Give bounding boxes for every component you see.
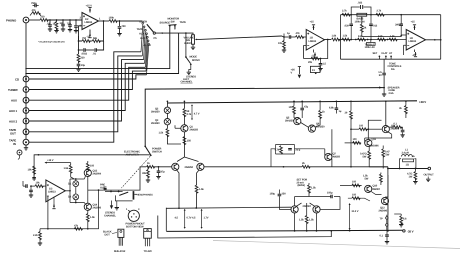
svg-text:AUX 1: AUX 1 (139, 33, 147, 36)
transistor Q6 diff pair right (185, 163, 204, 170)
node supply corner (38, 154, 40, 156)
input resistor R42 (35, 181, 46, 187)
node bias fb (350, 166, 352, 168)
scan artifact line (213, 241, 460, 249)
inductor L1 with damping resistor (400, 149, 416, 169)
node fb pwr (283, 166, 285, 168)
transistor Q5 diff pair left (172, 163, 179, 170)
svg-text:.01: .01 (93, 53, 97, 56)
node mid1 (355, 39, 357, 41)
capacitor C2 to ground (60, 20, 66, 31)
svg-text:2N4250: 2N4250 (185, 166, 194, 169)
svg-text:0.1: 0.1 (380, 235, 384, 238)
resistor R3 to ground (54, 20, 58, 33)
svg-text:100: 100 (359, 125, 364, 128)
svg-text:5W: 5W (386, 154, 390, 157)
resistor R24 VAS load (183, 137, 191, 145)
svg-text:100: 100 (90, 165, 95, 168)
svg-text:LM833: LM833 (85, 21, 93, 24)
resistor R14 2.7k top (342, 10, 350, 17)
svg-text:47k: 47k (296, 32, 301, 35)
svg-text:4.7 V: 4.7 V (194, 113, 200, 116)
capacitor C1 to ground (47, 20, 53, 31)
svg-text:3k: 3k (399, 107, 402, 110)
bias voltage arrow 31.2V (349, 203, 359, 232)
label to pwr amp (100, 184, 106, 190)
capacitor C5 to ground after R4 (117, 21, 126, 36)
svg-text:(BIAS): (BIAS) (298, 184, 306, 187)
selector contact 7 (148, 44, 150, 46)
selector contact 3 (145, 29, 147, 31)
base Q11 wire (320, 197, 340, 210)
mid row wire (341, 39, 407, 41)
tape monitor return wire 2 (25, 26, 178, 73)
supply feed wire upper (145, 88, 384, 146)
svg-text:1: 1 (126, 208, 128, 211)
svg-text:6.8k: 6.8k (329, 107, 334, 110)
Q4 emitter down to diff pair (177, 132, 199, 162)
set flat contacts (373, 52, 393, 59)
speaker fuse arrow node (379, 86, 400, 95)
jack J5 AUX 1 (9, 108, 29, 114)
output arrow marker (434, 39, 436, 41)
terminal -38V (403, 229, 414, 233)
node loop right (440, 39, 442, 41)
svg-text:CD: CD (15, 77, 19, 81)
wire R28 down to bias (350, 129, 352, 167)
tone loop left vertical (340, 15, 342, 60)
label TO-39 (126, 223, 146, 229)
svg-text:5%: 5% (391, 68, 395, 71)
svg-text:31.2 V: 31.2 V (352, 210, 359, 213)
svg-text:SWITCH: SWITCH (152, 151, 162, 154)
node n6 (119, 20, 121, 22)
svg-text:Q11: Q11 (372, 138, 377, 141)
node loop diff right (195, 207, 197, 209)
svg-text:100p: 100p (327, 192, 333, 195)
svg-text:5W: 5W (365, 178, 369, 181)
label LEFT CHANNEL (181, 78, 193, 84)
pin stub label (283, 34, 285, 38)
svg-text:2N4250: 2N4250 (190, 129, 199, 132)
svg-text:HEADPHONES: HEADPHONES (137, 194, 153, 197)
resistor R10 to ground below (278, 37, 286, 52)
coupling cap at left (104, 187, 107, 190)
svg-text:750: 750 (67, 23, 72, 26)
lower driver Q14 (365, 185, 381, 193)
transistor Q10 diff2 left (291, 206, 298, 213)
potentiometer VOLUME 50k (184, 35, 200, 45)
svg-text:1k: 1k (147, 162, 150, 165)
svg-text:* VALUES IN µF UNLESS OTD: * VALUES IN µF UNLESS OTD (38, 41, 65, 44)
svg-text:2k: 2k (364, 27, 367, 30)
node U2 out (327, 39, 329, 41)
preamp supply wire from power switch (34, 155, 150, 181)
output line buffer (88, 189, 104, 191)
op-amp U3 1/2 LM833 (406, 30, 425, 51)
headphone jack tip wire (134, 193, 137, 195)
resistor R12 feedback 20k (308, 57, 319, 64)
+15V supply arrow U3 (411, 21, 417, 31)
U3 inverting stub (404, 45, 407, 55)
resistor R4 100k series (109, 17, 120, 23)
svg-text:1k: 1k (322, 111, 325, 114)
diff feedback wire right (204, 166, 302, 168)
svg-text:10k: 10k (278, 42, 283, 45)
diff2 collectors to rail (295, 197, 317, 231)
headphone jack sleeve bar (133, 191, 135, 200)
current source column wire (166, 101, 168, 128)
Q17 lower resistor R43 (86, 210, 95, 229)
capacitor C6 parallel fb (79, 48, 90, 55)
svg-text:+15 V: +15 V (86, 5, 93, 8)
svg-text:2N4250: 2N4250 (151, 111, 160, 114)
Q12 emitter network resistor R32 (388, 123, 402, 135)
node mid3 (387, 39, 389, 41)
driver transistor Q12 (382, 125, 399, 133)
small arrow on source wire (161, 32, 163, 34)
Q9 collector/emitter column (331, 129, 333, 167)
transistor Q11 diff2 right (303, 205, 321, 213)
svg-text:330: 330 (60, 22, 65, 25)
buffer mesh wires (70, 179, 84, 203)
svg-text:0.7V: 0.7V (187, 217, 192, 220)
capacitor C8 electrolytic to ground (76, 61, 85, 71)
mode switch lower stub (187, 64, 191, 74)
tone loop right vertical (440, 15, 442, 60)
wire TAPE IN to selector (29, 52, 141, 142)
base feed resistor R33 (345, 138, 362, 144)
capacitor C22 (329, 101, 342, 113)
top rail wire (341, 14, 441, 16)
wire CD to selector (29, 75, 147, 79)
main output column (387, 167, 389, 231)
wire bias to Q10 (271, 149, 325, 167)
input series from left (23, 181, 27, 188)
svg-text:2.5A: 2.5A (389, 92, 394, 95)
svg-text:OUTPUT: OUTPUT (424, 174, 435, 177)
node tone left (340, 39, 342, 41)
capacitor C21 (300, 101, 308, 114)
svg-text:BOTTOM VIEW: BOTTOM VIEW (126, 225, 144, 228)
Q13 collector wire (368, 120, 381, 139)
svg-text:150: 150 (187, 140, 192, 143)
svg-text:10k: 10k (36, 181, 41, 184)
svg-text:AUX: AUX (11, 99, 17, 103)
+38V rail (167, 101, 417, 103)
input node (30, 185, 32, 187)
node out (387, 168, 389, 170)
node mid2 (367, 39, 369, 41)
power ground arrow (110, 201, 119, 210)
node bass left (350, 14, 352, 16)
feedback left wire (79, 36, 83, 50)
output transistor Q13 (365, 138, 379, 147)
svg-text:FLAT: FLAT (382, 52, 389, 55)
svg-text:LM833: LM833 (48, 191, 56, 194)
svg-text:750: 750 (82, 37, 87, 40)
svg-text:10µ: 10µ (81, 64, 86, 67)
-V arrow U4 (52, 197, 55, 209)
feedback resistor R44 47k (74, 224, 83, 230)
resistor R26 VAS top (289, 101, 297, 119)
node line in (283, 36, 285, 38)
measure arrow 2 (192, 209, 209, 229)
svg-text:2N4250: 2N4250 (285, 120, 294, 123)
wire R2 to op-amp (47, 19, 82, 21)
-15V supply arrow U2 (312, 50, 317, 58)
selector contact fan wires (141, 25, 149, 75)
node out1 (103, 20, 105, 22)
jack J3 TUNER (8, 87, 29, 93)
jack J6 AUX 2 (9, 118, 29, 124)
svg-text:100k LIN: 100k LIN (365, 46, 375, 49)
node fb2 (78, 49, 80, 51)
wire TUNER to selector (29, 71, 146, 89)
resistor R30 (308, 183, 317, 197)
package TO-126 (114, 229, 126, 253)
svg-text:TP: TP (380, 218, 383, 221)
loop top wire (166, 207, 291, 208)
selector contact 5 (147, 36, 149, 38)
selector wiper SW1 (147, 24, 157, 40)
svg-text:2.7k: 2.7k (342, 10, 347, 13)
svg-text:PHONO: PHONO (6, 19, 17, 23)
jack J1 phono input (23, 17, 29, 23)
wire Q12 emitter to Q13 base (365, 134, 392, 143)
svg-text:47k: 47k (74, 224, 79, 227)
svg-text:MONO: MONO (192, 59, 200, 62)
label MONITOR SW (168, 18, 180, 24)
svg-text:1.5k: 1.5k (309, 219, 314, 222)
resistor R45 to ground (33, 229, 48, 246)
wire TAPE OUT to selector (29, 56, 142, 132)
+15V supply arrow U2 (310, 21, 316, 31)
emitter resistor R35 0.47 (382, 146, 391, 169)
U2 inverting input wire (304, 46, 307, 59)
svg-text:3: 3 (138, 208, 140, 211)
capacitor C12 bass left leg (344, 15, 353, 41)
resistor R40 (64, 163, 75, 179)
power switch S4 (144, 145, 151, 156)
resistor R20 input 1k (147, 162, 172, 168)
capacitor C26 bottom (380, 231, 390, 244)
node diff2 (294, 230, 296, 232)
resistor R27 (316, 101, 326, 127)
svg-text:F1: F1 (312, 69, 315, 72)
svg-text:1.5k: 1.5k (343, 35, 348, 38)
svg-text:100: 100 (289, 106, 294, 109)
svg-text:MJE-2012: MJE-2012 (114, 250, 126, 253)
headphone mute switch blade (119, 192, 128, 195)
svg-text:1.5k: 1.5k (311, 187, 316, 190)
resistor R25 feedback 2k (302, 162, 388, 168)
node bass right (370, 14, 372, 16)
capacitor C17 tone ground (378, 59, 386, 94)
svg-text:TAPE: TAPE (180, 21, 187, 24)
bias network RC parallel (275, 145, 301, 155)
capacitor C11 bass bypass (351, 2, 371, 15)
svg-text:2N5496: 2N5496 (379, 210, 388, 213)
feedback vertical wire (99, 21, 104, 41)
diode column wires (75, 179, 77, 203)
resistor R21 to ground (142, 166, 150, 182)
svg-text:TUNER: TUNER (139, 21, 148, 24)
svg-text:-38 V: -38 V (407, 229, 414, 233)
resistor R5 feedback (82, 37, 90, 43)
output line (388, 168, 428, 170)
label TONE CONTROLS (388, 62, 402, 71)
svg-text:TO-220: TO-220 (144, 250, 153, 253)
svg-text:10k: 10k (28, 169, 33, 172)
input coupling from preamp (104, 167, 147, 190)
svg-text:AUDIO: AUDIO (184, 42, 192, 45)
resistor R18 mid (378, 35, 386, 41)
node n3 (62, 19, 64, 21)
resistor R7 220 to ground (77, 50, 85, 62)
feed arrow wire (44, 159, 70, 164)
svg-text:100k: 100k (109, 17, 115, 20)
feedback wire U2 (304, 40, 328, 59)
Q15 collector column (385, 175, 388, 215)
output wire U2 (325, 39, 332, 41)
node C14 top (400, 14, 402, 16)
svg-text:AUX 3: AUX 3 (144, 44, 152, 47)
capacitor C18 feedback ground (318, 58, 326, 71)
op-amp inverting input wire (79, 26, 83, 41)
svg-text:8.2k: 8.2k (378, 35, 383, 38)
svg-text:39: 39 (345, 112, 348, 115)
svg-text:100µ: 100µ (270, 193, 276, 196)
node n2 (56, 19, 58, 21)
resistor R41 Q collector (86, 161, 94, 171)
svg-text:1W: 1W (409, 176, 413, 179)
input capacitor C27 (29, 186, 35, 197)
node n5 at op-amp input (75, 19, 77, 21)
svg-text:2N3904: 2N3904 (93, 173, 102, 176)
-15V supply arrow U3 (412, 50, 417, 58)
tape monitor return wire 1 (25, 26, 169, 68)
capacitor C4 to ground (74, 20, 78, 33)
svg-text:+15 V: +15 V (47, 159, 54, 162)
resistor R17 mid (358, 35, 366, 41)
headphone jack feed wire (105, 191, 123, 193)
op-amp U2 1/2 LM833 (306, 30, 324, 51)
capacitor C23 100u (270, 190, 291, 210)
wire AUX to selector (29, 67, 145, 100)
ground tone (382, 94, 386, 96)
svg-text:47k: 47k (32, 9, 37, 12)
U3 output wire to loop (426, 39, 441, 41)
emitter resistor R34 0.47 (360, 147, 371, 167)
svg-text:1.7V: 1.7V (204, 217, 209, 220)
Q14 emitter to Q15 base (348, 192, 382, 202)
svg-text:1.5: 1.5 (323, 63, 327, 66)
node q9 base feed (350, 128, 352, 130)
wire input to R2 (29, 19, 40, 21)
TO-39 package bottom view (126, 208, 140, 221)
wire to selector contact (120, 20, 143, 22)
resistor R2 220 (40, 16, 48, 22)
package TO-220 (144, 229, 153, 253)
Q14 base resistor R37 (340, 181, 362, 187)
rail junction dots (184, 100, 186, 102)
svg-text:100: 100 (352, 194, 357, 197)
measure arrow 4.7V (191, 104, 200, 120)
Q12 collector to rail (385, 101, 387, 125)
output wire U4 (65, 190, 70, 192)
wire Q7 to Q8 (301, 114, 309, 127)
label black dot (103, 231, 117, 237)
label POWER SWITCH (152, 148, 162, 154)
svg-text:IN: IN (13, 142, 16, 146)
measure arrow 1 (175, 209, 192, 229)
output ground symbol (426, 177, 430, 182)
svg-text:6.8: 6.8 (403, 218, 407, 221)
svg-text:47p: 47p (161, 171, 166, 174)
svg-text:1.5k: 1.5k (159, 132, 164, 135)
rail dots bottom (330, 230, 332, 232)
svg-text:1µ: 1µ (287, 32, 290, 35)
svg-text:100k LIN: 100k LIN (355, 20, 365, 23)
node loop diff left (178, 207, 180, 209)
svg-text:1.5k: 1.5k (390, 35, 395, 38)
resistor R6 feedback (89, 37, 101, 43)
fuse F1 box (310, 66, 320, 74)
feedback wire buffer (48, 190, 99, 229)
potentiometer TREBLE 100k (365, 40, 376, 50)
diff collectors down (177, 170, 199, 208)
svg-text:47µ: 47µ (304, 106, 309, 109)
svg-text:LM833: LM833 (309, 40, 317, 43)
label SET BIAS (297, 179, 308, 188)
svg-text:LM833: LM833 (409, 40, 417, 43)
diode string D4 (68, 194, 79, 200)
svg-text:1.5k: 1.5k (199, 188, 204, 191)
svg-text:AUX 2: AUX 2 (9, 119, 18, 123)
phones jack (17, 150, 22, 160)
output node wire (369, 166, 388, 168)
node n4 (69, 19, 71, 21)
node Q13 base cross (367, 128, 369, 130)
diode D1 current source (151, 107, 171, 113)
resistor R48 bass wiper 2k (360, 24, 401, 37)
svg-text:+38 V: +38 V (419, 100, 426, 104)
svg-text:AT: AT (389, 52, 393, 55)
svg-text:1.5k: 1.5k (299, 219, 304, 222)
jack J8 TAPE IN (9, 139, 29, 146)
svg-text:25V: 25V (282, 193, 287, 196)
wire wiper to source switch (155, 32, 186, 34)
node n1 (49, 19, 51, 21)
svg-text:3: 3 (80, 16, 82, 19)
zobel resistor R36 (407, 169, 418, 184)
svg-text:CHANNEL: CHANNEL (104, 214, 116, 217)
resistor R13 series out 1.8k (332, 34, 340, 41)
wire AUX2 to selector (29, 60, 144, 121)
node fb (78, 40, 80, 42)
Q14 collector resistor R38 (363, 173, 382, 186)
svg-text:1Ω: 1Ω (406, 164, 409, 167)
transistor Q9 bias (325, 149, 341, 161)
capacitor C0 above R1 (31, 2, 39, 7)
bottom rail -38V (166, 230, 402, 231)
svg-text:AUX 2: AUX 2 (140, 37, 148, 40)
svg-text:5W: 5W (363, 156, 367, 159)
svg-text:+15: +15 (310, 21, 315, 24)
svg-text:2.2k: 2.2k (33, 234, 38, 237)
capacitor C25 + ground (400, 127, 404, 137)
